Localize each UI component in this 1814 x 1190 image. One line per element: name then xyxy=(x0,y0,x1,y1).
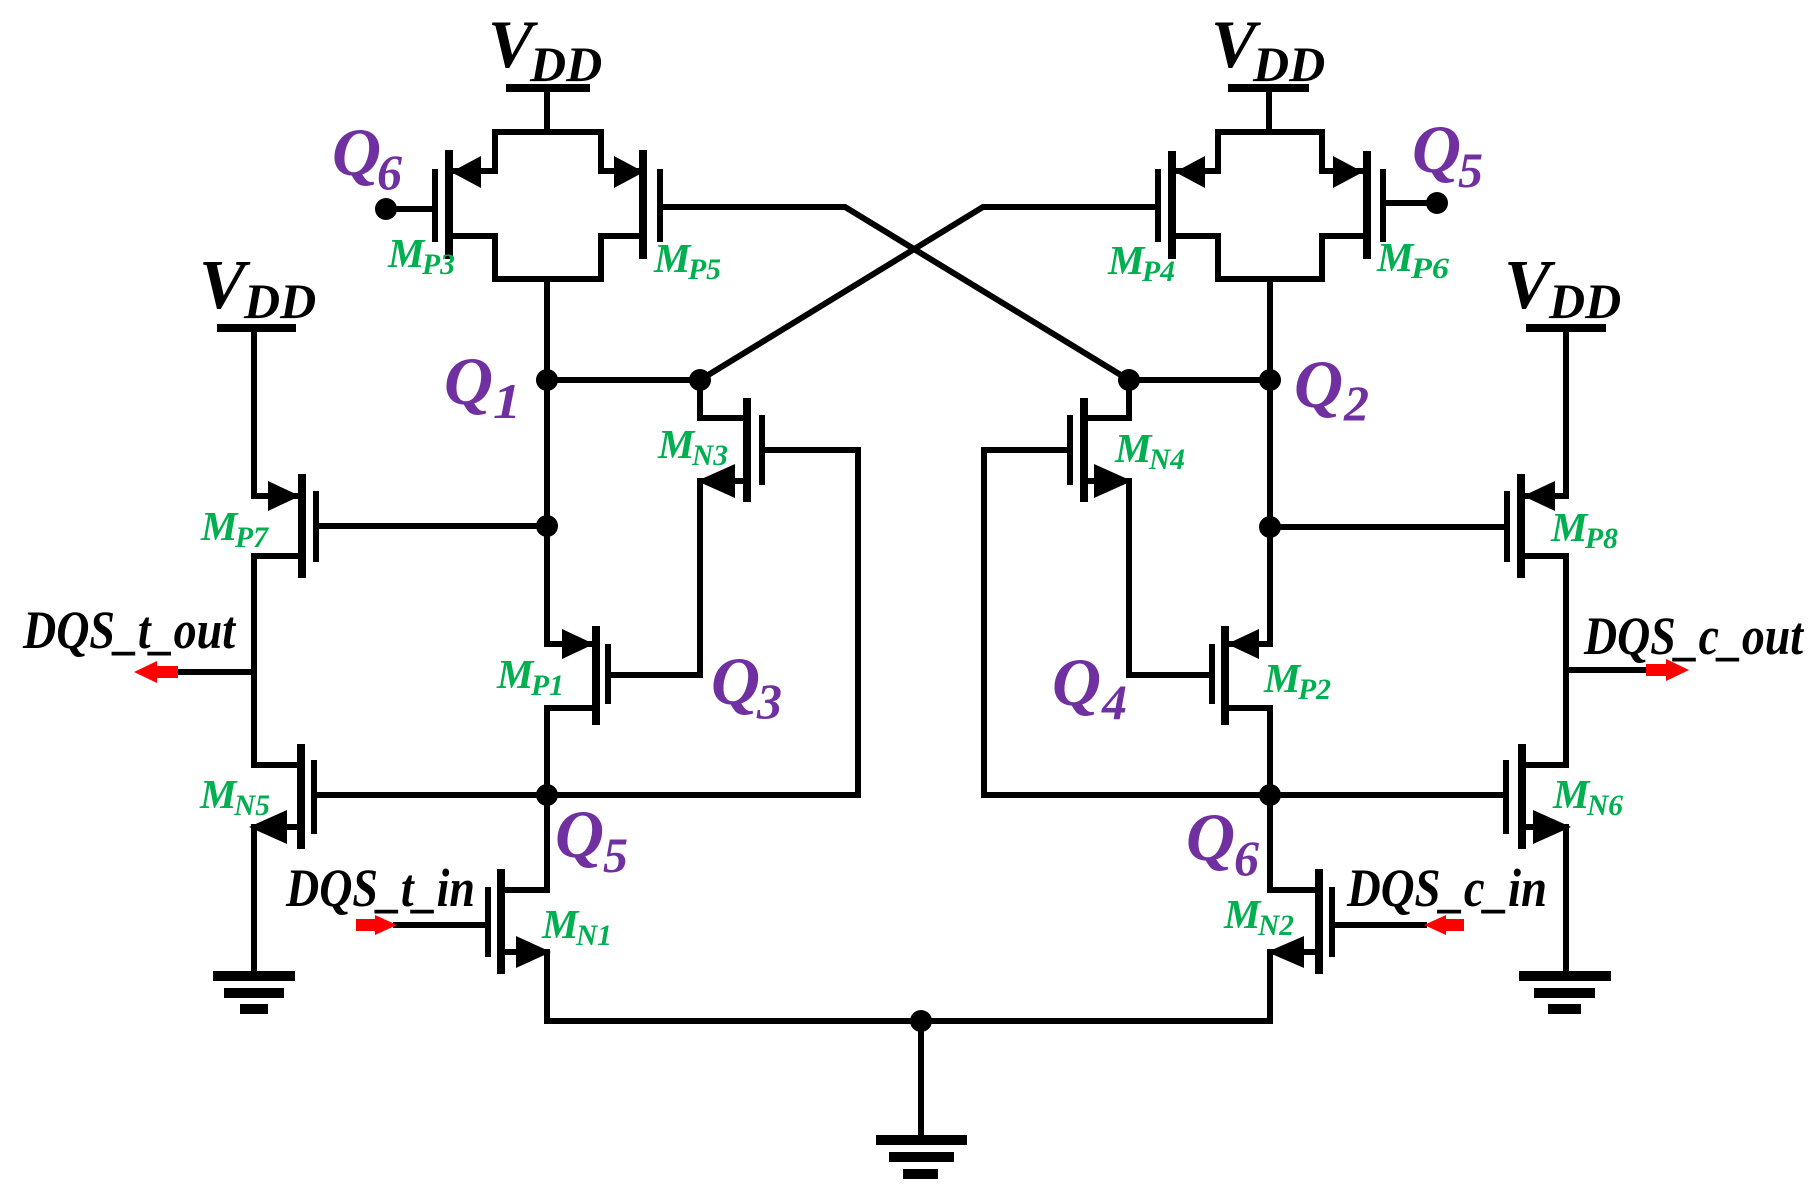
transistor MP4 xyxy=(1158,155,1218,255)
port DQS_c_out arrow xyxy=(1646,659,1689,681)
label MN3 xyxy=(657,421,728,472)
power VDD top-right bar xyxy=(1232,84,1305,92)
label MN4 xyxy=(1114,425,1185,476)
svg-text:N3: N3 xyxy=(691,439,728,472)
node Q5 xyxy=(536,784,558,806)
svg-text:N6: N6 xyxy=(1586,789,1623,822)
svg-text:DQS_c_out: DQS_c_out xyxy=(1583,606,1805,666)
wire MP4/MP6 drain rail down to Q2 xyxy=(1218,236,1322,380)
svg-text:Q: Q xyxy=(1052,644,1101,720)
svg-text:M: M xyxy=(1376,234,1415,280)
power VDD mid-left bar xyxy=(221,324,292,332)
wire VDD to MP8 source xyxy=(1563,328,1569,496)
svg-text:P4: P4 xyxy=(1141,255,1175,288)
wire MP5 gate cross-couple to Q2 side xyxy=(663,207,1129,380)
wire VDD stem to MP3/MP5 rail xyxy=(495,88,601,171)
port DQS_t_in wire xyxy=(396,922,485,928)
power VDD top-left bar xyxy=(510,84,586,92)
label DQS_c_out xyxy=(1583,606,1805,666)
wire VDD stem to MP4/MP6 rail xyxy=(1218,88,1322,171)
power VDD top-left label xyxy=(488,6,602,92)
port DQS_t_out arrow xyxy=(134,661,178,683)
label MP1 xyxy=(496,651,564,702)
svg-text:DD: DD xyxy=(243,273,316,329)
wire MN5 source to ground xyxy=(251,827,257,972)
label Q4 xyxy=(1052,644,1127,730)
ground (center) xyxy=(881,1140,962,1174)
transistor MP5 xyxy=(601,154,660,255)
wire tail to ground xyxy=(918,1021,924,1136)
wire MN6 source to ground xyxy=(1563,827,1569,972)
wire Q6 node line xyxy=(984,792,1504,798)
svg-text:P7: P7 xyxy=(234,521,269,554)
svg-text:M: M xyxy=(1107,237,1146,283)
svg-text:6: 6 xyxy=(377,144,402,200)
svg-text:DD: DD xyxy=(529,36,602,92)
transistor MN6 xyxy=(1506,748,1571,845)
power VDD mid-right bar xyxy=(1530,324,1602,332)
transistor MN5 xyxy=(249,748,314,845)
svg-text:1: 1 xyxy=(493,373,521,429)
wire MP8 gate to Q2 xyxy=(1270,524,1504,530)
label Q5 (bottom) xyxy=(555,796,628,883)
transistor MN2 xyxy=(1267,795,1332,970)
transistor MP8 xyxy=(1507,478,1566,574)
svg-text:5: 5 xyxy=(1458,142,1483,198)
port DQS_t_in arrow xyxy=(356,915,397,935)
wire MN3 source down to Q3 node xyxy=(611,481,700,675)
transistor MP7 xyxy=(254,478,316,574)
svg-text:Q: Q xyxy=(1412,111,1461,187)
svg-text:Q: Q xyxy=(711,643,760,719)
svg-text:DD: DD xyxy=(1252,36,1325,92)
port DQS_c_in arrow xyxy=(1424,915,1464,935)
wire MP8 drain down to output column xyxy=(1563,556,1569,670)
node junction above MN3 xyxy=(689,369,711,391)
power VDD mid-right label xyxy=(1504,247,1621,329)
svg-text:N5: N5 xyxy=(233,789,270,822)
svg-text:2: 2 xyxy=(1343,375,1369,431)
transistor MN4 xyxy=(1070,380,1132,498)
label MP2 xyxy=(1263,655,1331,706)
wire output column to MN5 drain xyxy=(251,672,257,765)
label Q6 (bottom) xyxy=(1186,799,1259,886)
label MN5 xyxy=(199,771,270,822)
svg-text:P1: P1 xyxy=(530,669,564,702)
svg-text:5: 5 xyxy=(603,827,628,883)
node Q2 xyxy=(1259,369,1281,391)
wire MP7 gate to Q1 xyxy=(319,523,547,529)
port DQS_c_out wire xyxy=(1566,667,1647,673)
wire Q1 to MN3 drain xyxy=(547,377,700,383)
wire output column to MN6 drain xyxy=(1563,670,1569,765)
svg-text:DQS_t_out: DQS_t_out xyxy=(22,600,237,660)
wire VDD to MP7 source xyxy=(251,328,257,496)
svg-text:N4: N4 xyxy=(1148,443,1185,476)
port DQS_c_in wire xyxy=(1336,922,1424,928)
svg-text:P6: P6 xyxy=(1410,252,1449,285)
svg-text:Q: Q xyxy=(555,796,604,872)
node Q5 input terminal xyxy=(1386,192,1448,214)
wire MN1 source to tail rail xyxy=(544,952,550,1021)
svg-text:M: M xyxy=(1114,425,1153,471)
node Q6 input terminal xyxy=(375,198,432,220)
port DQS_t_out wire xyxy=(176,669,254,675)
wire MP1 drain to Q5 node xyxy=(544,708,550,795)
svg-text:3: 3 xyxy=(756,673,782,729)
svg-text:DQS_c_in: DQS_c_in xyxy=(1346,858,1547,918)
svg-text:M: M xyxy=(199,771,238,817)
node tail junction xyxy=(910,1010,932,1032)
wire Q2 to MN4 drain xyxy=(1129,377,1270,383)
wire MN3 gate to Q5 line xyxy=(765,450,858,795)
svg-text:Q: Q xyxy=(332,114,381,190)
transistor MP3 xyxy=(435,154,495,255)
svg-text:M: M xyxy=(1263,655,1302,701)
wire MP7 drain down to output column xyxy=(251,556,257,672)
svg-text:P2: P2 xyxy=(1297,673,1331,706)
power VDD top-right label xyxy=(1211,6,1325,92)
label MN2 xyxy=(1223,891,1294,942)
transistor MN1 xyxy=(488,795,551,970)
svg-text:4: 4 xyxy=(1101,674,1127,730)
node Q6 xyxy=(1259,784,1281,806)
node junction above MN4 xyxy=(1118,369,1140,391)
label MP3 xyxy=(387,230,455,281)
svg-text:P3: P3 xyxy=(421,248,455,281)
svg-text:M: M xyxy=(1552,771,1591,817)
wire tail rail xyxy=(547,1018,1270,1024)
svg-text:N1: N1 xyxy=(575,919,612,952)
svg-text:M: M xyxy=(657,421,696,467)
svg-text:M: M xyxy=(387,230,426,276)
svg-text:DQS_t_in: DQS_t_in xyxy=(285,858,475,918)
svg-text:P8: P8 xyxy=(1584,522,1618,555)
node junction Q2/MP8 gate xyxy=(1259,516,1281,538)
svg-text:Q: Q xyxy=(444,343,493,419)
power VDD mid-left label xyxy=(199,247,316,329)
svg-text:M: M xyxy=(541,901,580,947)
label Q6 (top) xyxy=(332,114,402,200)
label DQS_t_out xyxy=(22,600,237,660)
svg-text:P5: P5 xyxy=(687,253,721,286)
label Q5 (top) xyxy=(1412,111,1483,198)
svg-text:M: M xyxy=(496,651,535,697)
label MP6 xyxy=(1376,234,1449,285)
svg-text:Q: Q xyxy=(1186,799,1235,875)
label Q1 xyxy=(444,343,521,429)
svg-text:M: M xyxy=(653,235,692,281)
svg-text:M: M xyxy=(1223,891,1262,937)
svg-text:M: M xyxy=(200,503,239,549)
label MP8 xyxy=(1550,504,1618,555)
transistor MP1 xyxy=(547,629,608,721)
wire MP3/MP5 drain rail down to Q1 xyxy=(495,236,601,380)
label MP7 xyxy=(200,503,269,554)
transistor MP2 xyxy=(1212,629,1270,721)
svg-text:M: M xyxy=(1550,504,1589,550)
node Q1 xyxy=(536,369,558,391)
label DQS_c_in xyxy=(1346,858,1547,918)
label Q3 xyxy=(711,643,782,729)
label MP5 xyxy=(653,235,721,286)
ground (left) xyxy=(218,976,290,1009)
wire Q5 node line xyxy=(317,792,858,798)
wire MN4 gate to Q6 line xyxy=(984,450,1067,795)
label Q2 xyxy=(1294,346,1369,431)
wire Q2 vertical rail xyxy=(1267,380,1273,644)
wire MP2 drain to Q6 node xyxy=(1267,708,1273,795)
node junction Q1/MP7 gate xyxy=(536,515,558,537)
wire Q1 vertical rail xyxy=(544,380,550,644)
svg-text:6: 6 xyxy=(1234,830,1259,886)
wire MN2 source to tail rail xyxy=(1267,952,1273,1021)
label MP4 xyxy=(1107,237,1175,288)
svg-text:Q: Q xyxy=(1294,346,1343,422)
svg-text:DD: DD xyxy=(1548,273,1621,329)
svg-text:N2: N2 xyxy=(1257,909,1294,942)
ground (right) xyxy=(1524,976,1606,1009)
transistor MP6 xyxy=(1322,155,1383,255)
label MN1 xyxy=(541,901,612,952)
wire MN4 source down to Q4 node xyxy=(1129,481,1209,675)
label MN6 xyxy=(1552,771,1623,822)
label DQS_t_in xyxy=(285,858,475,918)
wire MP4 gate cross-couple to Q1 side xyxy=(700,207,1155,380)
transistor MN3 xyxy=(697,380,762,498)
